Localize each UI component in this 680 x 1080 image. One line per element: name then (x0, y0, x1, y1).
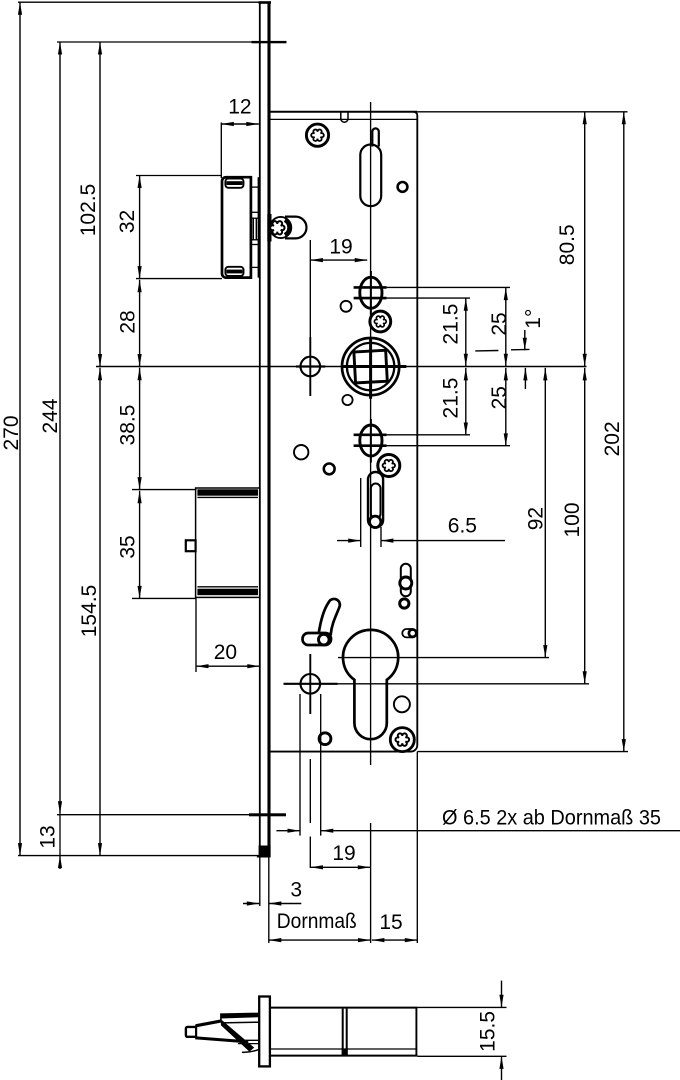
svg-text:154.5: 154.5 (78, 585, 101, 638)
svg-text:15.5: 15.5 (476, 1011, 499, 1052)
svg-text:12: 12 (228, 96, 251, 119)
svg-text:92: 92 (525, 507, 548, 530)
svg-text:Dornmaß: Dornmaß (277, 910, 357, 933)
svg-text:25: 25 (488, 312, 511, 335)
svg-text:35: 35 (117, 535, 140, 558)
svg-text:25: 25 (488, 386, 511, 409)
svg-text:102.5: 102.5 (77, 184, 100, 237)
svg-text:3: 3 (290, 878, 302, 901)
svg-text:1°: 1° (522, 309, 545, 329)
svg-text:6.5: 6.5 (448, 515, 477, 538)
svg-text:270: 270 (0, 415, 23, 450)
svg-text:20: 20 (214, 641, 237, 664)
svg-text:21.5: 21.5 (440, 304, 463, 345)
svg-text:28: 28 (117, 310, 140, 333)
svg-text:21.5: 21.5 (440, 378, 463, 419)
svg-text:15: 15 (379, 911, 402, 934)
svg-text:202: 202 (601, 421, 624, 456)
svg-text:19: 19 (332, 842, 355, 865)
svg-text:32: 32 (116, 210, 139, 233)
svg-text:244: 244 (39, 398, 62, 433)
svg-text:80.5: 80.5 (556, 224, 579, 265)
svg-text:19: 19 (329, 236, 352, 259)
svg-text:38.5: 38.5 (117, 405, 140, 446)
svg-text:Ø 6.5 2x ab Dornmaß 35: Ø 6.5 2x ab Dornmaß 35 (442, 807, 661, 830)
svg-text:13: 13 (37, 825, 60, 848)
svg-text:100: 100 (561, 502, 584, 537)
